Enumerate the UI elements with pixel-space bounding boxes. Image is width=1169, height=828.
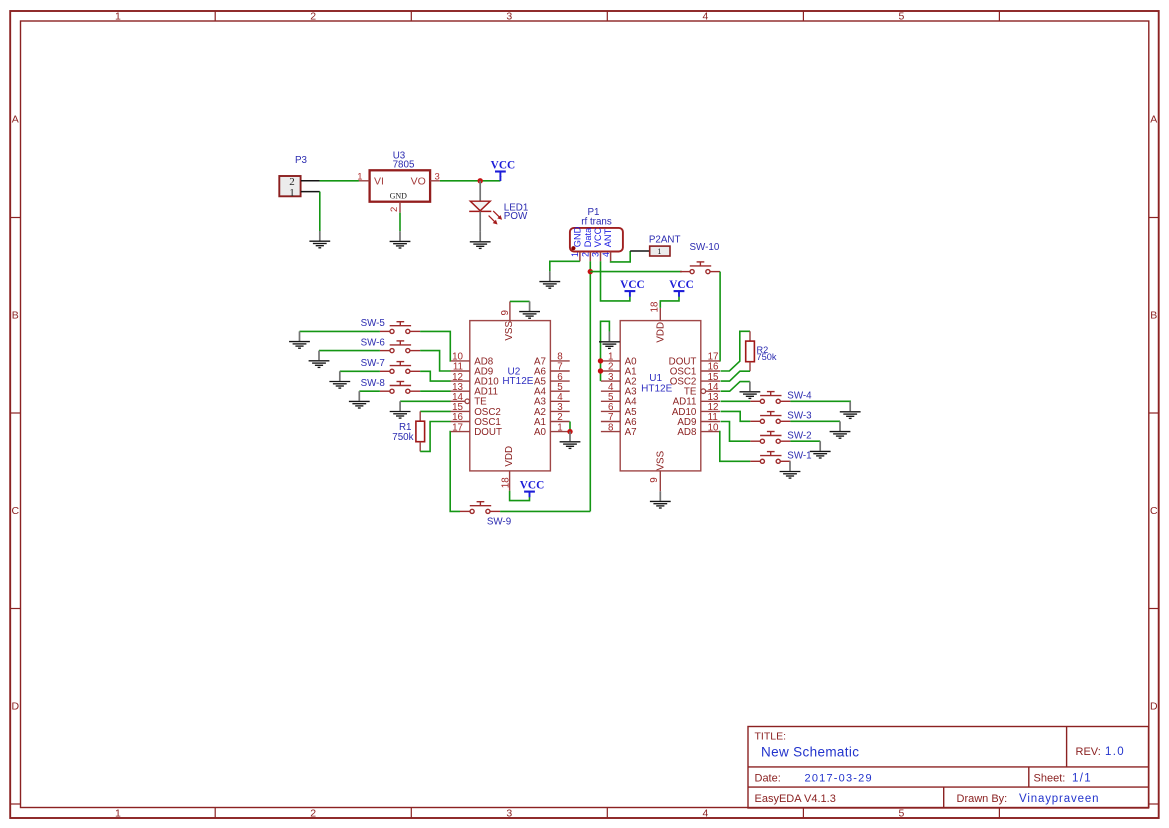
- svg-text:A0: A0: [534, 427, 547, 438]
- U2 pin 15 OSC2: [451, 402, 501, 418]
- wire SW-5 right to U2: [420, 331, 451, 361]
- U3 pin 3: [430, 180, 440, 182]
- svg-text:SW-8: SW-8: [361, 378, 386, 389]
- svg-text:18: 18: [500, 477, 511, 488]
- resistor R2 750k: [746, 331, 755, 371]
- svg-text:HT12E: HT12E: [641, 384, 672, 395]
- svg-text:GND: GND: [573, 226, 583, 247]
- P1 pin 2 Data: [581, 227, 593, 261]
- svg-text:AD8: AD8: [677, 427, 697, 438]
- U1 pin 18 VDD: [649, 301, 666, 343]
- LED1 pin top: [479, 181, 481, 201]
- wire SW-4 to ground: [790, 400, 850, 402]
- wire R2 bottom to U1 OSC2: [721, 371, 750, 381]
- junction (Data / SW-10): [588, 269, 593, 274]
- svg-text:1: 1: [115, 11, 121, 23]
- svg-text:New Schematic: New Schematic: [761, 745, 859, 760]
- U2 pin 6 A5: [534, 372, 570, 388]
- svg-text:SW-10: SW-10: [690, 242, 720, 253]
- svg-text:1: 1: [570, 252, 580, 257]
- svg-text:4: 4: [601, 252, 611, 257]
- svg-text:1: 1: [289, 187, 295, 199]
- IC U1 HT12E: [620, 321, 701, 471]
- P3 pin 1 line: [301, 191, 320, 193]
- U2 pin 8 A7: [534, 352, 570, 368]
- svg-text:A: A: [1150, 114, 1157, 126]
- wire U3.2 to ground: [399, 213, 401, 232]
- resistor R1 750k: [416, 411, 425, 451]
- svg-text:Vinaypraveen: Vinaypraveen: [1019, 793, 1099, 805]
- svg-text:SW-7: SW-7: [361, 358, 385, 369]
- wire U2 VSS to ground: [510, 300, 530, 302]
- LED1 emission arrows: [489, 211, 502, 224]
- svg-text:5: 5: [898, 808, 904, 820]
- svg-text:C: C: [1150, 505, 1158, 517]
- junction (U1 A1): [598, 368, 603, 373]
- wire U1 AD11 to SW-4: [721, 400, 751, 402]
- U2 pin 7 A6: [534, 362, 570, 378]
- svg-text:P2ANT: P2ANT: [649, 234, 681, 245]
- svg-text:Sheet:: Sheet:: [1034, 773, 1066, 785]
- switch SW-1: [750, 452, 790, 464]
- svg-text:GND: GND: [390, 192, 408, 201]
- U2 pin 2 A1: [534, 412, 570, 428]
- U2 pin 3 A2: [534, 402, 570, 418]
- power flag VCC (U1): [674, 291, 685, 297]
- switch SW-5: [380, 322, 420, 334]
- connector P1 rf trans: [570, 228, 623, 252]
- wire U1 AD10 to SW-3: [721, 411, 751, 421]
- ground (SW-5): [289, 331, 310, 348]
- svg-text:DOUT: DOUT: [474, 427, 502, 438]
- U1 pin 14 TE: [684, 382, 720, 398]
- svg-text:4: 4: [702, 808, 708, 820]
- svg-text:3: 3: [506, 11, 512, 23]
- svg-text:U1: U1: [649, 373, 662, 384]
- wire SW-8 left to ground: [359, 390, 380, 392]
- svg-text:VCC: VCC: [520, 480, 544, 492]
- ground (SW-7): [329, 371, 350, 388]
- U1 pin 6 A5: [601, 402, 637, 418]
- wire U2 VDD to VCC: [510, 491, 530, 501]
- svg-text:3: 3: [591, 252, 601, 257]
- ground (SW-2): [810, 441, 831, 458]
- junction (VCC rail): [478, 178, 483, 183]
- connector P2ANT: [650, 246, 670, 256]
- svg-text:SW-2: SW-2: [787, 430, 811, 441]
- svg-text:1.0: 1.0: [1105, 746, 1125, 758]
- wire P1.VCC to power flag: [601, 261, 630, 301]
- switch SW-4: [750, 392, 790, 404]
- U3 pin 1: [359, 180, 370, 182]
- U1 pin 17 DOUT: [669, 352, 720, 368]
- ground (SW-3): [830, 421, 851, 438]
- U1 pin 1 A0: [601, 352, 637, 368]
- P3 pin 2 line: [301, 180, 320, 182]
- ground (U2 VSS): [519, 301, 540, 318]
- U2 pin 10 AD8: [451, 352, 494, 368]
- svg-text:750k: 750k: [392, 432, 413, 443]
- U1 pin 9 VSS: [649, 450, 667, 491]
- svg-text:1: 1: [657, 246, 661, 256]
- svg-text:VCC: VCC: [593, 227, 603, 247]
- svg-text:VDD: VDD: [504, 446, 515, 467]
- wire SW-7 right to U2: [420, 371, 451, 381]
- ground (SW-6): [309, 351, 330, 368]
- svg-text:Data: Data: [583, 227, 593, 247]
- svg-text:2: 2: [389, 207, 400, 212]
- switch SW-10: [680, 262, 720, 274]
- wire Data to SW-10: [590, 271, 682, 273]
- U2 pin 14 TE: [451, 392, 488, 408]
- svg-text:4: 4: [702, 11, 708, 23]
- wire SW-7 left to ground: [340, 370, 380, 372]
- svg-text:Drawn By:: Drawn By:: [957, 793, 1008, 805]
- svg-text:Date:: Date:: [755, 773, 781, 785]
- switch SW-2: [750, 432, 790, 444]
- svg-text:5: 5: [898, 11, 904, 23]
- U2 pin 17 DOUT: [451, 422, 502, 438]
- diode LED1: [469, 201, 491, 211]
- wire U2 TE to ground: [400, 400, 451, 402]
- svg-text:TITLE:: TITLE:: [755, 731, 787, 743]
- ground (U2 TE): [390, 401, 411, 418]
- svg-text:VO: VO: [411, 176, 426, 188]
- svg-text:ANT: ANT: [603, 228, 613, 247]
- switch SW-8: [380, 382, 420, 394]
- U2 pin 5 A4: [534, 382, 570, 398]
- connector P3: [279, 176, 300, 199]
- wire SW-9 to Data: [500, 510, 590, 512]
- P1 pin 4 ANT: [601, 228, 613, 261]
- ground (SW-1): [780, 461, 801, 478]
- svg-text:VCC: VCC: [491, 160, 515, 172]
- wire U2 DOUT to SW-9: [450, 432, 460, 512]
- svg-text:HT12E: HT12E: [502, 376, 533, 387]
- wire P3.1 to ground: [319, 192, 321, 231]
- U1 pin 16 OSC1: [670, 362, 720, 378]
- U1 pin 3 A2: [601, 372, 637, 388]
- svg-text:VCC: VCC: [669, 279, 693, 291]
- wire P3.2 to U3.VI: [320, 180, 359, 182]
- svg-text:VSS: VSS: [656, 450, 667, 470]
- switch SW-6: [380, 341, 420, 353]
- U2 pin 18 VDD: [500, 446, 515, 491]
- power flag VCC (P1): [625, 291, 636, 297]
- switch SW-9: [460, 502, 500, 514]
- svg-text:REV:: REV:: [1076, 746, 1101, 758]
- wire U2 A1-A0: [569, 422, 571, 432]
- svg-text:P3: P3: [295, 155, 308, 166]
- title block: [748, 727, 1149, 809]
- wire U1 OSC1 to R2 top: [721, 331, 750, 371]
- P2ANT pin line: [630, 250, 650, 252]
- switch SW-7: [380, 362, 420, 374]
- P1 pin 1 GND: [570, 226, 582, 261]
- junction (U2 A0): [567, 429, 572, 434]
- ground (LED1): [470, 232, 491, 249]
- svg-text:SW-3: SW-3: [787, 411, 812, 422]
- P1 pin1 marker dot: [571, 246, 575, 250]
- svg-text:9: 9: [500, 310, 511, 315]
- ground (U3 GND): [390, 231, 411, 248]
- svg-text:3: 3: [435, 171, 440, 182]
- svg-text:2: 2: [310, 808, 316, 820]
- IC U2 HT12E: [470, 321, 551, 471]
- svg-text:VDD: VDD: [656, 322, 667, 343]
- wire P1.1 to ground: [550, 261, 580, 271]
- wire SW-10 to U1 DOUT: [719, 272, 722, 361]
- wire R1 to U2 OSC1: [420, 422, 450, 452]
- svg-text:9: 9: [649, 477, 660, 482]
- U2 pin 9 VSS: [500, 302, 515, 341]
- svg-text:1/1: 1/1: [1072, 773, 1092, 785]
- svg-text:7805: 7805: [393, 160, 415, 171]
- wire U3.VO to VCC rail: [440, 180, 501, 182]
- wire U1 AD8 to SW-1: [720, 432, 751, 462]
- U3 pin 2: [399, 202, 401, 213]
- svg-text:1: 1: [115, 808, 121, 820]
- U1 pin 7 A6: [601, 412, 637, 428]
- svg-text:750k: 750k: [757, 352, 777, 362]
- svg-text:VI: VI: [374, 176, 384, 188]
- svg-text:18: 18: [649, 301, 660, 312]
- svg-text:D: D: [1150, 701, 1158, 713]
- svg-text:A7: A7: [625, 427, 637, 438]
- wire Data vertical: [589, 261, 591, 511]
- ground (P1 GND): [539, 271, 560, 288]
- wire U1 TE to ground: [721, 382, 750, 392]
- U2 pin 4 A3: [534, 392, 570, 408]
- ground (SW-8): [349, 391, 370, 408]
- U2 pin 1 A0: [534, 422, 570, 438]
- ground (P3.1): [309, 231, 330, 248]
- wire U2 OSC2 to R1: [420, 410, 450, 412]
- svg-text:SW-1: SW-1: [787, 451, 811, 462]
- U2 pin 16 OSC1: [451, 412, 501, 428]
- ground (SW-4): [840, 402, 861, 419]
- U2 pin 13 AD11: [451, 382, 498, 398]
- svg-text:2: 2: [310, 11, 316, 23]
- U1 pin 15 OSC2: [670, 372, 720, 388]
- U1 pin 5 A4: [601, 392, 637, 408]
- svg-text:SW-9: SW-9: [487, 516, 511, 527]
- U1 pin 4 A3: [601, 382, 637, 398]
- svg-text:POW: POW: [504, 211, 528, 222]
- switch SW-3: [750, 412, 790, 424]
- svg-text:3: 3: [506, 808, 512, 820]
- ground (U2 A0/A1): [560, 432, 581, 449]
- wire SW-2 to ground: [790, 440, 820, 442]
- U1 pin 2 A1: [601, 362, 637, 378]
- U2 pin 11 AD9: [451, 362, 494, 378]
- regulator U3 7805: [370, 170, 431, 201]
- wire SW-6 left to ground: [319, 350, 380, 352]
- wire U1 AD9 to SW-2: [721, 422, 751, 442]
- power flag VCC (rail): [495, 172, 506, 178]
- svg-text:EasyEDA V4.1.3: EasyEDA V4.1.3: [755, 793, 836, 805]
- svg-text:VCC: VCC: [620, 279, 644, 291]
- U1 pin 10 AD8: [677, 422, 720, 438]
- U1 pin 11 AD9: [677, 412, 720, 428]
- LED1 pin bottom: [479, 211, 481, 231]
- wire SW-5 left to ground: [300, 330, 380, 332]
- ground (U1 A0/A1/A2): [599, 332, 620, 349]
- wire U1 VDD to VCC: [660, 297, 679, 308]
- wire SW-8 right to U2: [420, 390, 451, 392]
- svg-text:1: 1: [357, 171, 362, 182]
- svg-text:A: A: [12, 114, 19, 126]
- power flag VCC (U2): [524, 492, 535, 498]
- ground (U1 TE): [740, 382, 761, 399]
- U1 pin 8 A7: [601, 422, 637, 438]
- svg-text:SW-6: SW-6: [361, 337, 386, 348]
- svg-text:B: B: [1150, 310, 1157, 322]
- wire SW-3 to ground: [790, 420, 840, 422]
- ground (U1 VSS): [650, 491, 671, 508]
- P1 pin 3 VCC: [591, 227, 603, 261]
- U2 pin 12 AD10: [451, 372, 500, 388]
- svg-text:VSS: VSS: [504, 321, 515, 341]
- wire P1.ANT to P2ANT: [611, 251, 631, 262]
- svg-text:2017-03-29: 2017-03-29: [805, 773, 873, 785]
- wire U1 A0/A1/A2 to ground: [601, 321, 610, 381]
- junction (U1 A0): [598, 358, 603, 363]
- svg-text:rf trans: rf trans: [581, 217, 612, 228]
- svg-text:SW-5: SW-5: [361, 318, 386, 329]
- U1 pin 12 AD10: [672, 402, 720, 418]
- svg-text:C: C: [12, 505, 20, 517]
- svg-text:B: B: [12, 310, 19, 322]
- wire SW-6 right to U2: [420, 351, 451, 371]
- svg-text:D: D: [12, 701, 20, 713]
- svg-text:2: 2: [581, 252, 591, 257]
- U1 pin 13 AD11: [673, 392, 720, 408]
- svg-text:SW-4: SW-4: [787, 391, 812, 402]
